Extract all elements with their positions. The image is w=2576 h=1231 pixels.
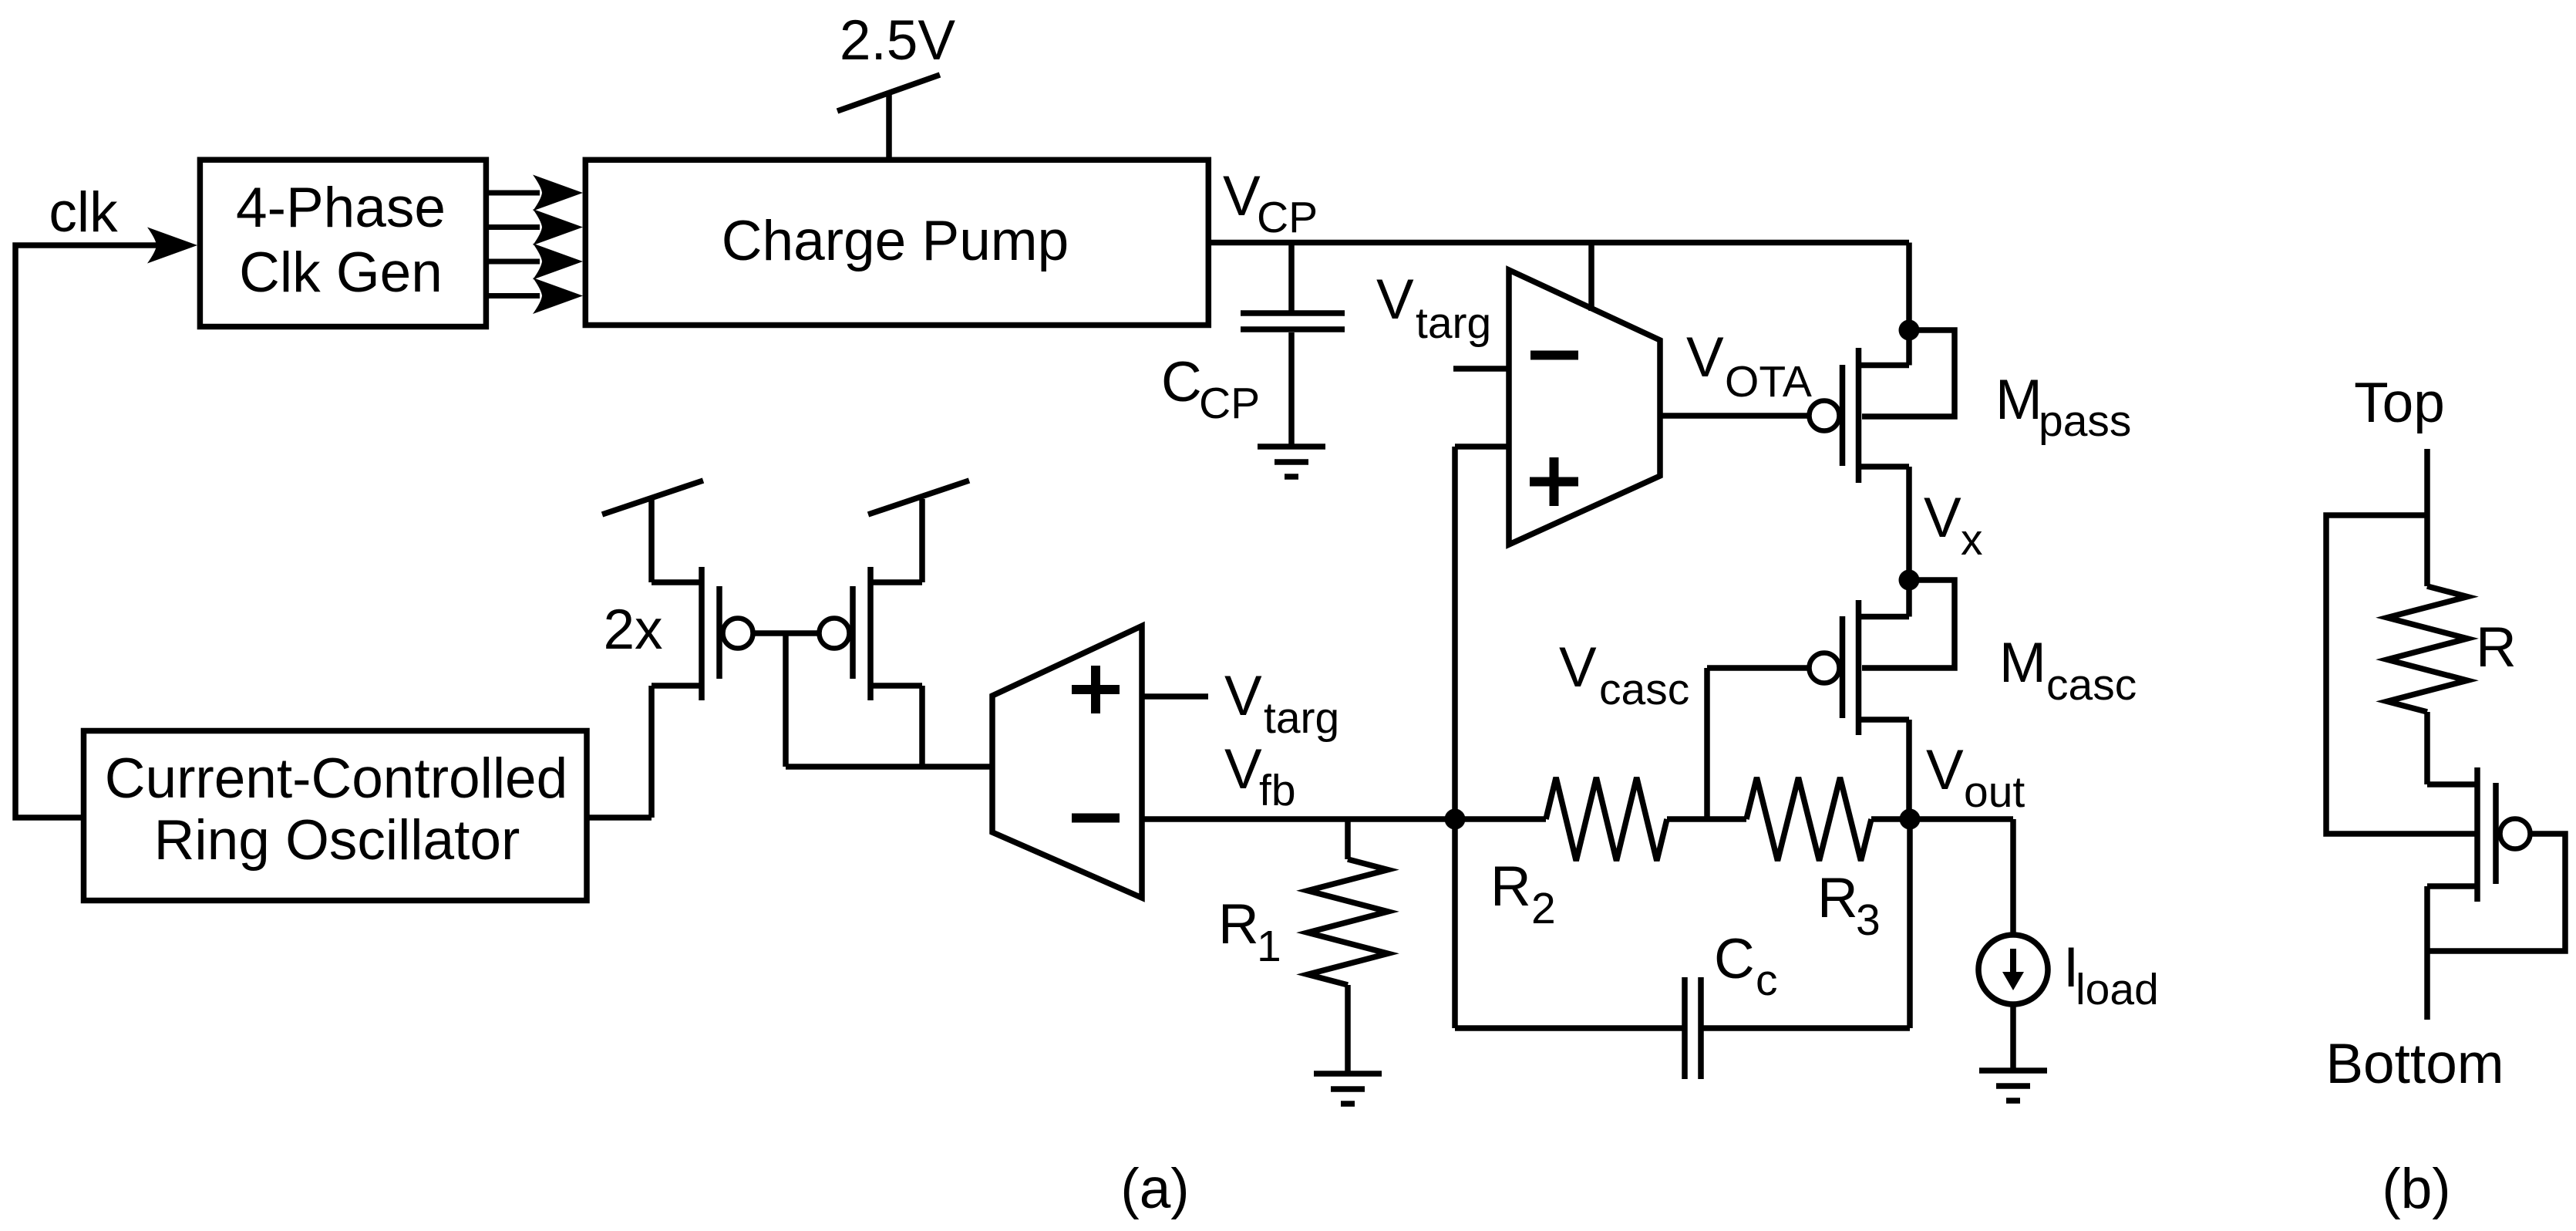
svg-text:Current-Controlled: Current-Controlled [105,747,567,810]
svg-text:R: R [2476,616,2517,679]
svg-text:V: V [1376,268,1414,331]
svg-text:2x: 2x [603,599,662,661]
svg-text:C: C [1161,351,1202,413]
svg-text:targ: targ [1264,693,1339,743]
svg-text:out: out [1964,767,2025,817]
svg-text:Charge Pump: Charge Pump [722,210,1069,272]
svg-text:V: V [1559,636,1597,699]
svg-text:V: V [1924,487,1961,549]
svg-text:R: R [1817,867,1858,929]
svg-text:3: 3 [1856,895,1881,945]
svg-text:R: R [1218,893,1259,956]
svg-text:(a): (a) [1120,1158,1189,1220]
svg-text:4-Phase: 4-Phase [236,177,446,239]
svg-text:CP: CP [1199,379,1260,428]
svg-text:2: 2 [1531,884,1556,933]
svg-text:V: V [1926,739,1964,801]
svg-text:x: x [1961,515,1983,565]
svg-text:Clk Gen: Clk Gen [239,241,443,304]
svg-text:pass: pass [2039,396,2131,446]
svg-text:V: V [1223,165,1261,228]
svg-text:load: load [2076,965,2159,1014]
svg-text:(b): (b) [2382,1158,2450,1220]
svg-text:R: R [1490,855,1531,918]
svg-text:casc: casc [1599,665,1689,714]
svg-text:Ring Oscillator: Ring Oscillator [154,809,520,872]
svg-text:targ: targ [1416,298,1491,348]
svg-text:M: M [1995,369,2042,431]
svg-text:2.5V: 2.5V [840,9,955,72]
svg-text:M: M [1999,632,2046,694]
svg-text:1: 1 [1257,922,1281,971]
svg-text:CP: CP [1257,193,1318,242]
svg-text:fb: fb [1259,766,1296,815]
svg-text:casc: casc [2046,660,2137,710]
svg-text:Top: Top [2354,372,2445,434]
svg-text:C: C [1714,928,1755,990]
svg-text:V: V [1686,326,1724,389]
svg-text:OTA: OTA [1725,357,1812,406]
svg-text:V: V [1224,738,1262,801]
svg-text:clk: clk [49,181,118,244]
svg-text:V: V [1224,665,1262,727]
svg-text:c: c [1756,956,1778,1005]
svg-text:Bottom: Bottom [2325,1033,2504,1095]
